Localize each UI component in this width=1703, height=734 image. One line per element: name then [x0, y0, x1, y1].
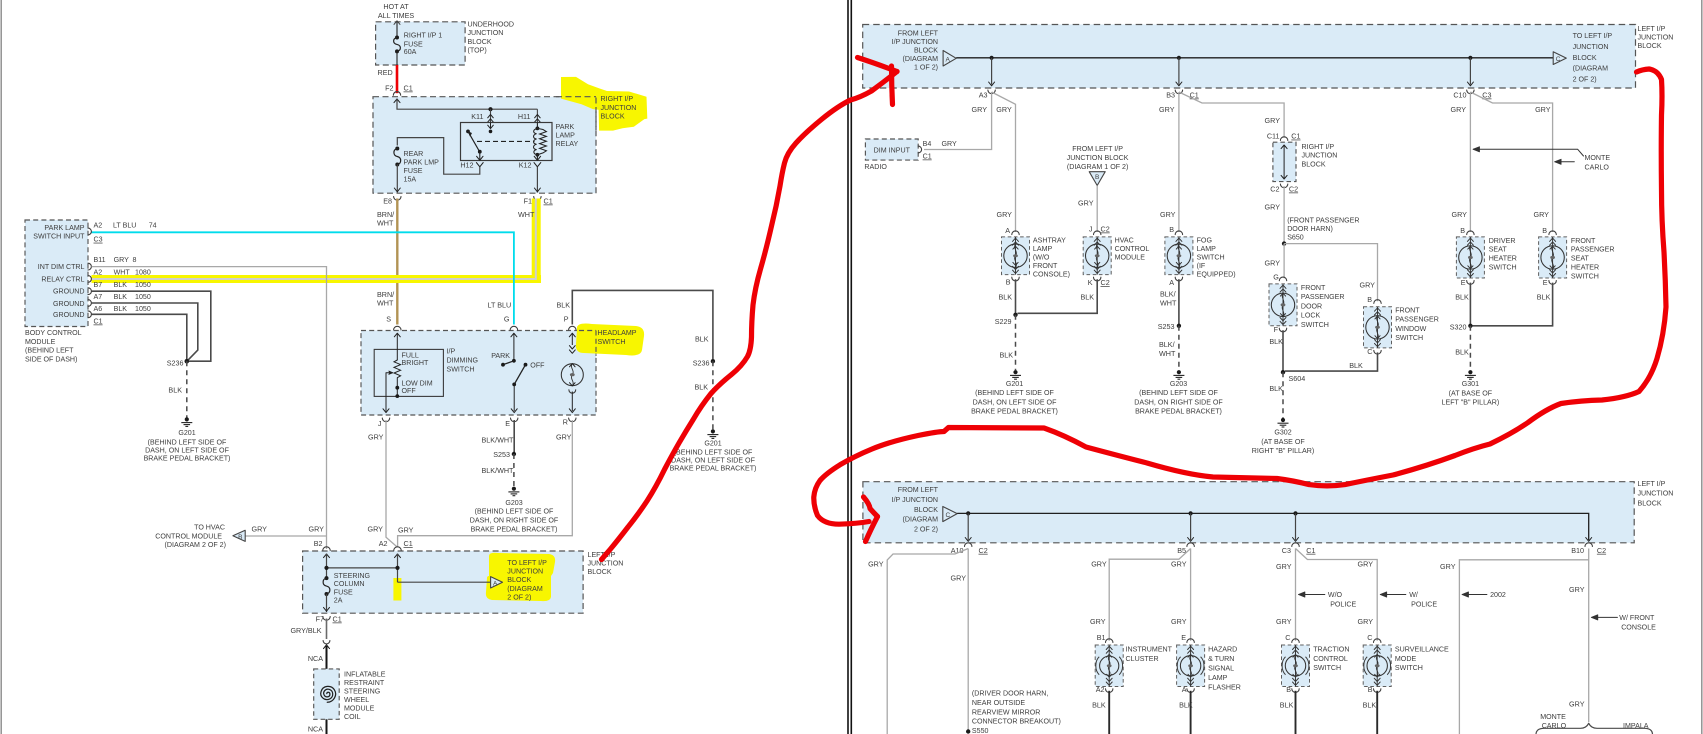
- splice S236 right: [711, 359, 715, 363]
- svg-text:H11: H11: [518, 112, 531, 121]
- svg-text:UNDERHOOD: UNDERHOOD: [468, 21, 515, 29]
- svg-text:JUNCTION: JUNCTION: [1638, 34, 1674, 42]
- dashed BLK/WHT to ground G203: [513, 454, 515, 487]
- triangle connector B pointing down to HVAC: [1089, 172, 1105, 186]
- svg-text:GRY: GRY: [556, 432, 572, 441]
- svg-text:TO LEFT I/P: TO LEFT I/P: [507, 559, 547, 567]
- svg-text:C1: C1: [1291, 132, 1300, 141]
- svg-text:BRN/: BRN/: [377, 210, 394, 219]
- svg-text:S550: S550: [972, 727, 989, 734]
- wire BLK dashed S229 to ground G201: [1015, 315, 1017, 371]
- traction control switch component: [1282, 645, 1310, 687]
- left page border line: [0, 0, 2, 734]
- svg-text:SWITCH: SWITCH: [1301, 321, 1329, 329]
- svg-text:C1: C1: [404, 84, 413, 93]
- svg-text:BLOCK: BLOCK: [1638, 499, 1662, 507]
- svg-text:HOT AT: HOT AT: [383, 2, 409, 11]
- svg-text:SURVEILLANCE: SURVEILLANCE: [1395, 646, 1449, 654]
- svg-text:BRN/: BRN/: [377, 290, 394, 299]
- svg-text:CONSOLE): CONSOLE): [1033, 270, 1070, 278]
- svg-text:E: E: [1181, 633, 1186, 642]
- svg-text:WHT: WHT: [114, 269, 131, 277]
- svg-text:FOG: FOG: [1197, 236, 1212, 244]
- svg-text:A: A: [946, 56, 951, 63]
- svg-text:BRAKE PEDAL BRACKET): BRAKE PEDAL BRACKET): [471, 526, 558, 534]
- connector B2 on steering block: [323, 547, 330, 551]
- bus node B3 drop: [1177, 56, 1181, 60]
- wire GRY C10 diagonal branch to front passenger seat heater: [1470, 92, 1552, 232]
- svg-text:SWITCH INPUT: SWITCH INPUT: [33, 233, 85, 241]
- svg-text:R: R: [563, 418, 568, 427]
- connector B10 C2: [1585, 543, 1592, 547]
- bus node C10 drop: [1468, 56, 1472, 60]
- svg-text:EQUIPPED): EQUIPPED): [1197, 270, 1236, 278]
- svg-text:K11: K11: [471, 112, 483, 121]
- splice S236: [185, 359, 190, 364]
- HVAC pin K C2: [1094, 277, 1101, 281]
- svg-text:C: C: [1367, 347, 1372, 356]
- svg-text:(W/O: (W/O: [1033, 253, 1050, 261]
- svg-text:BLOCK: BLOCK: [1638, 42, 1662, 50]
- svg-text:BLK: BLK: [999, 293, 1013, 302]
- instrument cluster pin A2: [1106, 689, 1113, 693]
- svg-text:SWITCH: SWITCH: [1395, 334, 1423, 342]
- red annotation big loop and curve to diagram 2: [864, 497, 878, 517]
- svg-text:B: B: [1006, 278, 1011, 287]
- svg-text:FROM LEFT I/P: FROM LEFT I/P: [1072, 145, 1123, 153]
- wire GRY from J to A2 connector: [386, 420, 397, 547]
- right I/P junction block (left panel): [373, 97, 596, 194]
- svg-text:E: E: [1543, 278, 1548, 287]
- front passenger seat heater pin E: [1549, 281, 1556, 285]
- wire GRY 2002 branch: [1459, 560, 1588, 734]
- wire BLK hazard flasher down: [1190, 691, 1192, 734]
- HVAC control module component: [1083, 237, 1111, 275]
- svg-text:(DIAGRAM: (DIAGRAM: [507, 585, 543, 593]
- connector S at headlamp switch: [394, 326, 401, 330]
- svg-text:HEATER: HEATER: [1489, 255, 1517, 263]
- svg-text:LAMP: LAMP: [1208, 674, 1228, 682]
- yellow highlight over HEADLAMP SWITCH label: [576, 324, 644, 356]
- svg-text:P: P: [564, 315, 569, 324]
- svg-text:GRY: GRY: [1276, 617, 1292, 626]
- relay switch to H12: [479, 152, 481, 161]
- radio DIM INPUT block: [865, 139, 918, 160]
- svg-text:A: A: [493, 580, 498, 587]
- wire BLK/WHT from E to S253: [513, 420, 515, 454]
- svg-text:LAMP: LAMP: [1197, 245, 1217, 253]
- svg-text:(BEHIND LEFT SIDE OF: (BEHIND LEFT SIDE OF: [475, 508, 554, 516]
- splice S550: [966, 729, 970, 733]
- svg-text:S236: S236: [693, 359, 710, 368]
- W/ FRONT CONSOLE tag: [1592, 616, 1617, 618]
- svg-text:C1: C1: [923, 153, 932, 161]
- connector A10 C2: [965, 543, 972, 547]
- wire GRY INT DIM CTRL from BCM to junction and down to B2: [92, 267, 327, 549]
- ground G201 right panel: [1013, 370, 1017, 374]
- svg-text:BLK: BLK: [1092, 701, 1106, 710]
- wire GRY C3 diagonal to surveillance mode switch: [1296, 549, 1378, 641]
- svg-text:BLK: BLK: [695, 335, 709, 344]
- svg-text:C10: C10: [1453, 91, 1466, 100]
- svg-text:A2: A2: [379, 539, 388, 548]
- svg-text:BRIGHT: BRIGHT: [402, 359, 429, 367]
- wire GRY triangle B to HVAC module: [1096, 186, 1098, 233]
- splice S604: [1281, 370, 1285, 374]
- triangle connector A to left I/P junction block diagram 2: [491, 577, 503, 588]
- svg-text:FUSE: FUSE: [334, 588, 353, 596]
- svg-text:2 OF 2): 2 OF 2): [507, 593, 531, 601]
- svg-text:INFLATABLE: INFLATABLE: [344, 671, 386, 679]
- svg-text:C1: C1: [333, 615, 342, 624]
- svg-text:GRY: GRY: [1265, 116, 1281, 125]
- svg-text:(DIAGRAM 1 OF 2): (DIAGRAM 1 OF 2): [1067, 163, 1129, 171]
- svg-text:BLK/WHT: BLK/WHT: [482, 435, 515, 444]
- svg-text:GRY: GRY: [996, 105, 1012, 114]
- chevrons below relay pins H12 K12: [476, 163, 483, 167]
- wire GRY S650 down to door lock switch: [1283, 244, 1285, 279]
- connector E at headlamp switch bottom: [511, 418, 518, 422]
- wire K12 to F1: [536, 167, 538, 193]
- window switch pin C: [1374, 350, 1381, 354]
- svg-text:GRY: GRY: [1569, 585, 1585, 594]
- connector J at headlamp switch bottom: [382, 418, 389, 422]
- relay coil to K12: [536, 155, 538, 161]
- svg-text:8: 8: [133, 256, 137, 264]
- hazard flasher pin A: [1187, 689, 1194, 693]
- svg-text:TO HVAC: TO HVAC: [194, 524, 225, 532]
- red annotation long curve left panel: [602, 72, 898, 560]
- svg-text:COLUMN: COLUMN: [334, 580, 365, 588]
- svg-text:A2: A2: [1096, 685, 1105, 694]
- svg-text:POLICE: POLICE: [1411, 601, 1437, 609]
- svg-text:2A: 2A: [334, 597, 343, 605]
- triangle connector A from left I/P junction block: [943, 51, 956, 67]
- bus node C3 drop: [1293, 511, 1297, 515]
- MONTE CARLO tag arrows: [1474, 149, 1584, 156]
- inline connector on coil wire: [323, 641, 330, 644]
- svg-text:(BEHIND LEFT SIDE OF: (BEHIND LEFT SIDE OF: [674, 448, 753, 456]
- svg-text:A: A: [1005, 226, 1010, 235]
- bus wire across bottom block: [957, 513, 1588, 540]
- svg-text:I/P JUNCTION: I/P JUNCTION: [892, 38, 938, 46]
- svg-text:DASH, ON LEFT SIDE OF: DASH, ON LEFT SIDE OF: [145, 447, 229, 455]
- svg-text:POLICE: POLICE: [1330, 601, 1356, 609]
- svg-text:C: C: [1285, 633, 1290, 642]
- radio pin B4 C1: [918, 146, 921, 153]
- svg-text:CONNECTOR BREAKOUT): CONNECTOR BREAKOUT): [972, 718, 1061, 726]
- svg-text:GRY: GRY: [1451, 105, 1467, 114]
- ground G203 right panel: [1177, 370, 1181, 374]
- wire H12 to rear park lamp fuse: [397, 138, 480, 175]
- svg-text:HEADLAMP: HEADLAMP: [598, 329, 637, 337]
- svg-text:DASH, ON LEFT SIDE OF: DASH, ON LEFT SIDE OF: [973, 398, 1057, 406]
- svg-text:JUNCTION: JUNCTION: [1573, 43, 1609, 51]
- wire GRY B10 down with 2002 branch: [1588, 549, 1590, 723]
- svg-text:DRIVER: DRIVER: [1489, 237, 1516, 245]
- svg-text:B: B: [1286, 685, 1291, 694]
- svg-text:J: J: [378, 419, 382, 428]
- wire BLK window switch to S604: [1285, 352, 1378, 371]
- wire BLK from S236 to headlamp switch P: [572, 290, 713, 359]
- svg-text:C: C: [1367, 633, 1372, 642]
- driver seat heater switch component: [1456, 237, 1484, 278]
- svg-text:WHT: WHT: [377, 219, 394, 228]
- connector P at headlamp switch: [569, 326, 576, 330]
- rheostat bottom segment with LOW DIM and OFF dots: [396, 378, 398, 396]
- svg-text:C1: C1: [1306, 546, 1315, 555]
- connector C1 at right I/P junction block top: [393, 92, 400, 96]
- svg-text:PARK: PARK: [556, 123, 575, 131]
- red annotation arrow to triangle A (diagram 1 pointer): [858, 58, 898, 72]
- svg-text:GRY: GRY: [1276, 562, 1292, 571]
- underhood junction block (top): [376, 22, 466, 65]
- svg-text:GRY: GRY: [1171, 617, 1187, 626]
- wire BLK HVAC to S229: [1018, 279, 1098, 313]
- svg-text:FRONT: FRONT: [1571, 237, 1596, 245]
- border ticks over yellow at right I/P label: [595, 98, 597, 131]
- svg-text:LEFT I/P: LEFT I/P: [1638, 25, 1666, 33]
- svg-text:B11: B11: [94, 256, 106, 264]
- ground G203 left panel: [512, 487, 516, 491]
- svg-text:BLK/WHT: BLK/WHT: [482, 466, 515, 475]
- connector B3 C1: [1175, 90, 1182, 94]
- svg-text:NCA: NCA: [308, 654, 323, 663]
- svg-text:FRONT: FRONT: [1301, 284, 1326, 292]
- svg-text:G203: G203: [1170, 380, 1187, 388]
- svg-text:G201: G201: [178, 429, 195, 437]
- connector R at headlamp switch bottom: [569, 418, 576, 422]
- svg-text:(BEHIND LEFT SIDE OF: (BEHIND LEFT SIDE OF: [1139, 389, 1218, 397]
- svg-text:RELAY CTRL: RELAY CTRL: [41, 276, 84, 284]
- svg-text:GRY: GRY: [972, 105, 988, 114]
- svg-text:GRY: GRY: [398, 526, 414, 535]
- relay coil: [536, 126, 540, 130]
- svg-text:C2: C2: [1101, 278, 1110, 287]
- svg-text:PARK LMP: PARK LMP: [404, 159, 440, 167]
- traction control pin B: [1292, 689, 1299, 693]
- svg-text:S236: S236: [167, 358, 184, 367]
- svg-text:DASH, ON RIGHT SIDE OF: DASH, ON RIGHT SIDE OF: [1134, 398, 1223, 406]
- svg-text:B: B: [238, 534, 242, 541]
- wire BLK door lock to S604: [1282, 330, 1284, 372]
- wire BLK dashed S604 to G302: [1282, 372, 1284, 418]
- svg-text:(AT BASE OF: (AT BASE OF: [1449, 389, 1493, 397]
- svg-text:BLK: BLK: [1081, 293, 1095, 302]
- fuse REAR PARK LMP FUSE 15A: [395, 147, 399, 151]
- svg-text:B: B: [1542, 226, 1547, 235]
- svg-text:B7: B7: [94, 281, 103, 289]
- fuse STEERING COLUMN FUSE 2A: [325, 576, 329, 580]
- wire BLK driver heater to S320: [1469, 283, 1471, 326]
- svg-text:A6: A6: [94, 305, 103, 313]
- svg-text:RELAY: RELAY: [556, 140, 579, 148]
- wire BLK dashed to ground G201: [186, 361, 188, 417]
- connector A2 C1 on steering block: [394, 547, 401, 551]
- svg-text:RIGHT I/P 1: RIGHT I/P 1: [404, 32, 442, 40]
- svg-text:GRY: GRY: [1090, 617, 1106, 626]
- svg-text:BRAKE PEDAL BRACKET): BRAKE PEDAL BRACKET): [1135, 408, 1222, 416]
- I/P dimming switch inner box: [374, 349, 443, 396]
- wire GRY A10 diagonal to driver door harn: [887, 549, 968, 734]
- svg-text:REAR: REAR: [404, 150, 424, 158]
- svg-text:BLOCK: BLOCK: [914, 506, 938, 514]
- border ticks over yellow at headlamp label: [595, 331, 597, 357]
- wire WHT from F1 down to RELAY CTRL (yellow highlighted): [92, 199, 536, 280]
- wire BLK passenger heater to S320: [1473, 283, 1553, 326]
- svg-text:SWITCH: SWITCH: [447, 365, 475, 373]
- wire GRY C10 to driver seat heater switch: [1469, 92, 1471, 232]
- svg-text:60A: 60A: [404, 48, 417, 56]
- svg-text:F1: F1: [524, 197, 532, 206]
- svg-text:74: 74: [149, 222, 157, 230]
- svg-text:15A: 15A: [404, 176, 417, 184]
- svg-text:BLK: BLK: [114, 293, 128, 301]
- instrument cluster component: [1095, 645, 1123, 687]
- svg-text:MONTE: MONTE: [1585, 154, 1611, 162]
- svg-text:GROUND: GROUND: [53, 288, 85, 296]
- svg-text:RESTRAINT: RESTRAINT: [344, 679, 385, 687]
- svg-text:S253: S253: [1158, 322, 1175, 331]
- connector C11: [1280, 137, 1287, 141]
- svg-text:1080: 1080: [135, 269, 151, 277]
- branch down to relay H11: [536, 109, 538, 122]
- svg-text:J: J: [1089, 225, 1093, 234]
- svg-text:MODULE: MODULE: [25, 338, 56, 346]
- bus node A10 drop: [966, 511, 970, 515]
- right page border line: [1701, 0, 1703, 734]
- svg-text:BRAKE PEDAL BRACKET): BRAKE PEDAL BRACKET): [971, 408, 1058, 416]
- inflatable restraint steering wheel module coil block: [314, 669, 340, 719]
- ground G301: [1468, 370, 1472, 374]
- svg-text:BLK: BLK: [1280, 701, 1294, 710]
- ground G201: [185, 417, 189, 421]
- wiper arrow and wire to J: [386, 373, 392, 411]
- wire A3 to radio DIM INPUT: [924, 92, 992, 150]
- svg-text:GRY: GRY: [868, 560, 884, 569]
- triangle connector C to left I/P junction block diagram 2: [1553, 52, 1566, 65]
- svg-text:S229: S229: [995, 317, 1012, 326]
- svg-text:MODE: MODE: [1395, 655, 1417, 663]
- svg-text:C2: C2: [1289, 185, 1298, 194]
- svg-text:BLK/: BLK/: [1159, 340, 1175, 349]
- svg-text:E: E: [1461, 278, 1466, 287]
- svg-text:DIMMING: DIMMING: [447, 356, 479, 364]
- surveillance mode switch component: [1363, 645, 1391, 687]
- bus node B5 drop: [1189, 511, 1193, 515]
- branch down to relay K11: [490, 109, 492, 122]
- svg-text:(FRONT PASSENGER: (FRONT PASSENGER: [1287, 217, 1359, 225]
- right I/P junction block small: [1273, 142, 1296, 181]
- bus node A3 drop: [990, 56, 994, 60]
- svg-text:LEFT "B" PILLAR): LEFT "B" PILLAR): [1442, 399, 1500, 407]
- svg-text:A3: A3: [979, 91, 988, 100]
- svg-text:DIM INPUT: DIM INPUT: [874, 147, 911, 155]
- wire fuse to block bottom: [396, 51, 398, 65]
- svg-text:BLOCK: BLOCK: [601, 113, 625, 121]
- svg-text:(TOP): (TOP): [468, 47, 487, 55]
- svg-text:GROUND: GROUND: [53, 311, 85, 319]
- svg-text:GRY: GRY: [1358, 560, 1374, 569]
- svg-text:2002: 2002: [1490, 591, 1506, 599]
- svg-text:FLASHER: FLASHER: [1208, 684, 1241, 692]
- svg-text:DOOR HARN): DOOR HARN): [1287, 225, 1333, 233]
- svg-text:CONSOLE: CONSOLE: [1621, 624, 1656, 632]
- svg-text:BLOCK: BLOCK: [914, 47, 938, 55]
- front passenger door lock switch component: [1269, 284, 1297, 326]
- svg-text:BRAKE PEDAL BRACKET): BRAKE PEDAL BRACKET): [670, 465, 757, 473]
- svg-text:GRY: GRY: [997, 210, 1013, 219]
- wire GRY S650 to front passenger window switch: [1284, 244, 1377, 302]
- svg-text:BLK: BLK: [1455, 293, 1469, 302]
- yellow highlight band on WHT RELAY CTRL wire horizontal: [92, 275, 542, 283]
- svg-text:WHT: WHT: [1159, 349, 1176, 358]
- svg-text:(BEHIND LEFT SIDE OF: (BEHIND LEFT SIDE OF: [975, 389, 1054, 397]
- svg-text:(DRIVER DOOR HARN,: (DRIVER DOOR HARN,: [972, 690, 1048, 698]
- park/off switch inside headlamp switch: [513, 333, 515, 361]
- svg-text:A7: A7: [94, 293, 103, 301]
- yellow highlight band on WHT wire vertical from F1: [532, 199, 541, 284]
- svg-text:BODY CONTROL: BODY CONTROL: [25, 329, 82, 337]
- svg-text:FRONT: FRONT: [1395, 307, 1420, 315]
- svg-text:HAZARD: HAZARD: [1208, 646, 1237, 654]
- wire stub to HOT AT ALL TIMES with up arrow: [396, 22, 398, 38]
- svg-text:HVAC: HVAC: [1115, 236, 1134, 244]
- connector C10 C3: [1467, 90, 1474, 94]
- svg-text:(DIAGRAM: (DIAGRAM: [1573, 65, 1609, 73]
- svg-text:G: G: [1273, 272, 1279, 281]
- svg-text:C3: C3: [1282, 546, 1291, 555]
- svg-text:STEERING: STEERING: [344, 688, 380, 696]
- svg-text:NCA: NCA: [308, 725, 323, 734]
- svg-text:GRY: GRY: [1171, 560, 1187, 569]
- svg-text:C2: C2: [979, 546, 988, 555]
- svg-text:GRY: GRY: [1265, 203, 1281, 212]
- wire BLK traction control down: [1295, 691, 1297, 734]
- headlamp switch block: [361, 331, 596, 416]
- svg-text:& TURN: & TURN: [1208, 655, 1234, 663]
- svg-text:GRY: GRY: [1534, 210, 1550, 219]
- svg-text:TO LEFT I/P: TO LEFT I/P: [1573, 32, 1613, 40]
- svg-text:CARLO: CARLO: [1585, 164, 1610, 172]
- splice S253 left panel: [512, 452, 516, 456]
- svg-text:SEAT: SEAT: [1489, 246, 1508, 254]
- svg-text:MODULE: MODULE: [1115, 253, 1146, 261]
- relay coil dashed link: [477, 140, 535, 142]
- svg-text:STEERING: STEERING: [334, 572, 370, 580]
- svg-text:GRY: GRY: [1159, 105, 1175, 114]
- svg-text:W/ FRONT: W/ FRONT: [1619, 614, 1655, 622]
- svg-text:C2: C2: [1270, 185, 1279, 194]
- svg-text:BLOCK: BLOCK: [588, 568, 612, 576]
- svg-text:G302: G302: [1274, 429, 1291, 437]
- svg-text:B4: B4: [923, 140, 932, 148]
- wire NCA black to coil block: [326, 646, 328, 669]
- svg-text:1050: 1050: [135, 281, 151, 289]
- svg-text:S604: S604: [1289, 374, 1306, 383]
- W/ POLICE tag: [1381, 594, 1406, 596]
- svg-text:RIGHT "B" PILLAR): RIGHT "B" PILLAR): [1252, 447, 1314, 455]
- svg-text:SIDE OF DASH): SIDE OF DASH): [25, 355, 77, 363]
- wire to triangle A TO LEFT I/P JUNCTION BLOCK: [398, 581, 491, 583]
- splice S229: [1013, 313, 1017, 317]
- svg-text:K: K: [1088, 278, 1093, 287]
- svg-text:SWITCH: SWITCH: [1489, 264, 1517, 272]
- svg-text:SWITCH: SWITCH: [1395, 664, 1423, 672]
- svg-text:BRAKE PEDAL BRACKET): BRAKE PEDAL BRACKET): [144, 455, 231, 463]
- svg-text:SIGNAL: SIGNAL: [1208, 665, 1234, 673]
- svg-text:C1: C1: [94, 318, 103, 326]
